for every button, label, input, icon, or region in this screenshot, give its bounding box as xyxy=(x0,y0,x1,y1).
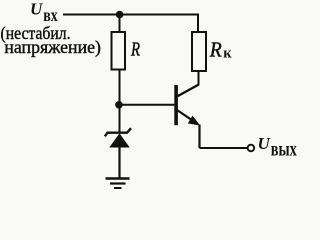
zener diode VD1 triangle xyxy=(109,133,129,147)
wire top node down to R xyxy=(119,15,121,34)
wire R bottom to node A xyxy=(119,70,121,133)
wire base xyxy=(120,104,175,106)
output terminal circle xyxy=(248,145,255,152)
resistor Rk xyxy=(192,32,206,71)
wire emitter vertical xyxy=(198,125,200,149)
label (нестабил. напряжение) xyxy=(1,23,101,58)
wire top corner down to Rk xyxy=(197,14,199,34)
wire output horizontal xyxy=(200,147,248,149)
label Rk xyxy=(209,38,232,62)
svg-text:R: R xyxy=(130,39,140,61)
label Uvyx xyxy=(258,134,298,161)
resistor R xyxy=(112,32,126,70)
transistor Q1 base bar xyxy=(174,85,178,125)
wire top horizontal xyxy=(63,14,198,16)
svg-text:U: U xyxy=(30,0,43,18)
node junction top xyxy=(116,11,124,19)
wire zener to ground xyxy=(118,146,120,179)
svg-text:напряжение): напряжение) xyxy=(4,37,101,58)
svg-text:U: U xyxy=(258,134,271,153)
zener diode VD1 cathode bar xyxy=(105,128,131,136)
svg-text:R: R xyxy=(209,38,222,62)
svg-text:к: к xyxy=(223,46,232,62)
transistor Q1 emitter lead with arrow xyxy=(177,110,196,123)
wire collector vertical xyxy=(198,71,200,85)
ground symbol xyxy=(106,179,130,189)
transistor Q1 collector lead xyxy=(177,85,199,97)
label Uvx xyxy=(30,0,58,25)
node A junction xyxy=(115,101,123,109)
svg-text:вых: вых xyxy=(271,137,297,161)
